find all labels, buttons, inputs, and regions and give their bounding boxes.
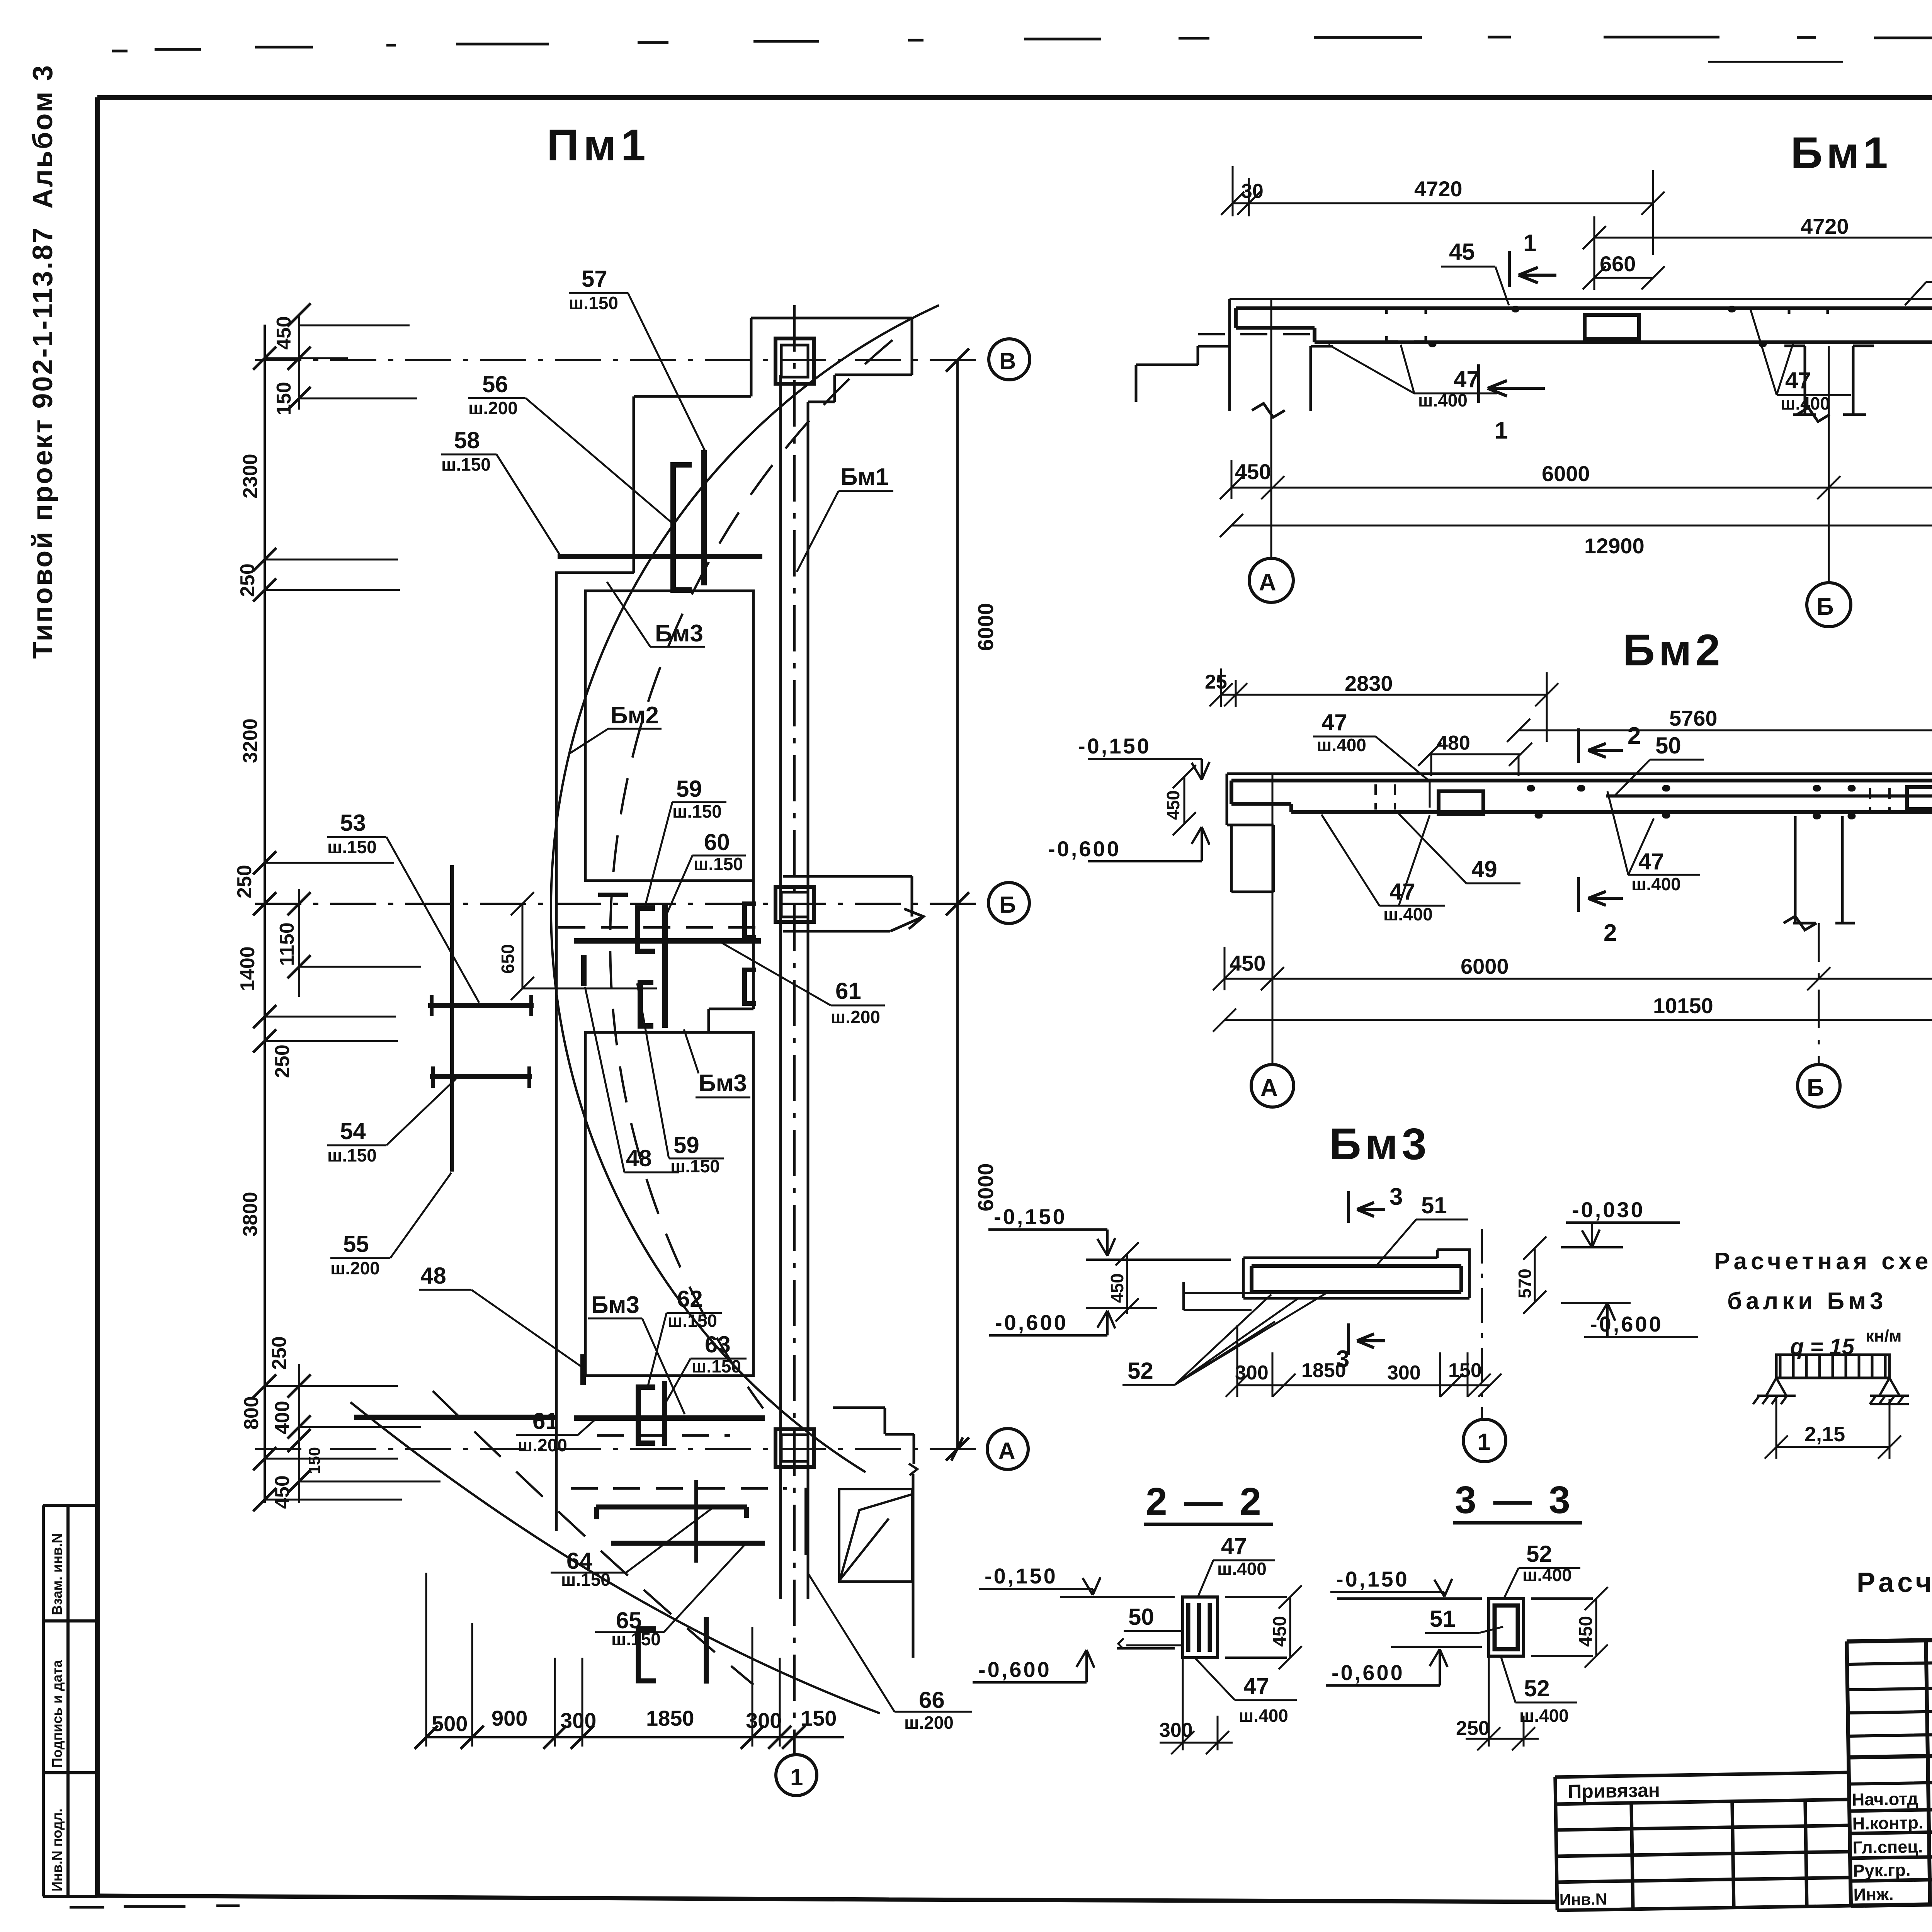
leader label 53 ш.150	[327, 810, 377, 857]
svg-text:450: 450	[1235, 459, 1271, 484]
svg-text:30: 30	[1241, 180, 1264, 202]
staff names column	[1931, 1787, 1932, 1903]
rebar 66 vertical bar in band	[804, 1488, 808, 1555]
column square at В	[776, 338, 814, 384]
svg-text:51: 51	[1430, 1606, 1456, 1632]
rebar bracket (А group upper)	[638, 1387, 655, 1443]
Бм2 mid rebar line 50	[1606, 794, 1932, 798]
Бм2 dim 450 vertical left	[1173, 765, 1196, 835]
leader label 62 ш.150	[668, 1286, 717, 1331]
svg-text:2,15: 2,15	[1804, 1423, 1845, 1446]
svg-text:Расчетная схема: Расчетная схема	[1714, 1248, 1932, 1275]
svg-text:А: А	[1259, 569, 1276, 596]
Бм3 left tail thin line	[1184, 1282, 1252, 1310]
svg-text:1: 1	[790, 1764, 803, 1790]
svg-text:650: 650	[498, 944, 518, 974]
plate top-left edge	[555, 396, 751, 573]
svg-text:300: 300	[1159, 1719, 1193, 1742]
band top extension outline	[751, 318, 912, 402]
svg-text:ш.400: ш.400	[1383, 904, 1433, 924]
svg-text:57: 57	[582, 266, 607, 292]
svg-text:В: В	[999, 348, 1016, 374]
section 2-2 column box	[1183, 1597, 1218, 1658]
lower opening panel	[585, 1032, 753, 1376]
svg-text:300: 300	[746, 1708, 782, 1733]
svg-text:54: 54	[340, 1118, 366, 1144]
svg-text:10150: 10150	[1653, 993, 1713, 1018]
Бм3 dim texts	[1235, 1359, 1482, 1384]
svg-text:61: 61	[835, 978, 861, 1004]
bottom dashed curve	[433, 1391, 753, 1685]
chain tick marks	[253, 303, 311, 1511]
svg-text:ш.150: ш.150	[569, 293, 618, 313]
section mark 3 lower	[1349, 1323, 1385, 1355]
svg-text:4720: 4720	[1414, 177, 1463, 201]
svg-text:3200: 3200	[239, 718, 262, 763]
Бм2 lower dim line 1 (450+6000+3700)	[1213, 947, 1932, 990]
label 47 ш.400 (Бм2 mid)	[1631, 849, 1681, 894]
svg-text:ш.150: ш.150	[672, 801, 722, 821]
big solid arc (tank wall)	[551, 305, 939, 1472]
svg-text:5760: 5760	[1669, 706, 1718, 730]
bottom-right step outline	[833, 1408, 914, 1658]
svg-text:Пм1: Пм1	[547, 121, 650, 170]
svg-text:Типовой проект 902-1-113.87: Типовой проект 902-1-113.87	[27, 226, 58, 659]
svg-text:450: 450	[1270, 1616, 1290, 1647]
svg-text:ш.400: ш.400	[1217, 1559, 1267, 1579]
svg-text:ш.150: ш.150	[327, 837, 377, 857]
svg-text:300: 300	[560, 1708, 596, 1733]
Бм1 stirrup marks left	[1386, 308, 1426, 342]
svg-text:47: 47	[1454, 366, 1480, 392]
svg-text:ш.200: ш.200	[518, 1435, 567, 1455]
svg-text:Инв.N: Инв.N	[1559, 1890, 1607, 1909]
svg-text:Бм2: Бм2	[1623, 626, 1724, 675]
title block bottom line	[1851, 1892, 1932, 1906]
title block outer top line	[1847, 1628, 1932, 1641]
svg-text:450: 450	[271, 1475, 294, 1509]
leader label 63 ш.150	[692, 1332, 741, 1376]
scheme Бм3 right support	[1870, 1378, 1909, 1404]
svg-text:-0,600: -0,600	[978, 1657, 1051, 1682]
column square at А	[776, 1429, 814, 1467]
Бм2 lower dim line 2 (10150)	[1213, 1009, 1932, 1032]
Бм2 axis Б extension and circle	[1818, 923, 1820, 1064]
leader label 55 ш.200	[330, 1231, 380, 1278]
label 47 ш.400 (2-2 bottom)	[1239, 1673, 1288, 1726]
section mark 2 lower	[1578, 877, 1623, 912]
svg-text:1850: 1850	[646, 1706, 694, 1730]
big dashed arc (hidden wall face)	[610, 340, 893, 1408]
svg-text:52: 52	[1526, 1541, 1552, 1567]
svg-text:56: 56	[482, 371, 508, 397]
svg-text:Бм3: Бм3	[655, 620, 703, 647]
svg-text:800: 800	[240, 1396, 263, 1430]
label 47 ш.400 (2-2 top)	[1217, 1533, 1267, 1579]
top torn dashed edge line	[112, 37, 1932, 62]
Бм2 top dim line (25+2830)	[1209, 668, 1558, 742]
svg-text:-0,600: -0,600	[1332, 1660, 1405, 1685]
svg-text:1: 1	[1478, 1429, 1490, 1455]
svg-text:150: 150	[305, 1447, 323, 1474]
svg-text:50: 50	[1655, 733, 1681, 759]
svg-text:-0,600: -0,600	[1048, 837, 1121, 861]
section mark 1 upper	[1509, 251, 1556, 287]
Бм3 outer outline	[1243, 1250, 1469, 1298]
rebar 48 lower small bar on panel edge	[580, 1354, 586, 1385]
svg-text:60: 60	[704, 829, 730, 855]
svg-text:-0,030: -0,030	[1572, 1197, 1645, 1222]
axis А dash-dot line	[255, 1448, 986, 1450]
leader label 59 ш.150 upper	[672, 776, 722, 821]
svg-text:52: 52	[1128, 1358, 1153, 1384]
Бм1 top bar thick line with left hook	[1236, 308, 1932, 342]
svg-text:ш.200: ш.200	[831, 1007, 880, 1027]
svg-text:Инж.: Инж.	[1853, 1884, 1894, 1905]
svg-text:2: 2	[1604, 920, 1617, 946]
chain extension lines	[265, 325, 440, 1500]
svg-text:Гл.спец.: Гл.спец.	[1852, 1837, 1923, 1857]
svg-text:3: 3	[1389, 1184, 1403, 1210]
svg-text:150: 150	[801, 1706, 837, 1730]
svg-text:66: 66	[919, 1687, 945, 1713]
leader label 66 ш.200	[904, 1687, 954, 1733]
Бм1 top dim line A (30+4720)	[1221, 166, 1665, 255]
rebar small bar left of Б	[598, 893, 628, 897]
Бм3 axis 1 dash-dot vertical	[1481, 1229, 1483, 1418]
svg-text:300: 300	[1235, 1362, 1269, 1384]
svg-text:150: 150	[1448, 1359, 1482, 1382]
svg-text:58: 58	[454, 427, 480, 453]
svg-text:ш.150: ш.150	[694, 854, 743, 874]
rebar 53/54 end brackets	[432, 995, 531, 1088]
svg-text:Нач.отд: Нач.отд	[1852, 1789, 1918, 1810]
svg-text:3800: 3800	[239, 1192, 262, 1236]
Бм1 bottom bar thick line with right step	[1315, 308, 1932, 342]
rebar 57 bar vertical (В group)	[701, 450, 707, 585]
Бм1 left wall dashed hidden edge	[1198, 333, 1313, 335]
svg-text:Подпись и дата: Подпись и дата	[49, 1660, 65, 1768]
svg-text:ш.400: ш.400	[1317, 735, 1366, 755]
svg-text:Бм3: Бм3	[591, 1292, 639, 1318]
rebar vertical bar at 64/65 group	[694, 1480, 698, 1563]
svg-text:61: 61	[532, 1408, 558, 1434]
column square at Б	[776, 887, 814, 922]
svg-text:450: 450	[273, 316, 295, 350]
svg-text:900: 900	[492, 1706, 527, 1730]
leader label 58 ш.150	[441, 427, 491, 474]
axis circle 1 (bottom)	[776, 1755, 817, 1796]
svg-text:Расчетная нагрузка на Пм1-q=30: Расчетная нагрузка на Пм1-q=30кн/м²	[1857, 1567, 1932, 1598]
dim 300 (2-2)	[1160, 1658, 1233, 1754]
axis 1 vertical dash-dot line	[793, 305, 796, 1753]
svg-text:6000: 6000	[973, 603, 998, 651]
svg-text:450: 450	[1576, 1616, 1596, 1647]
svg-text:2 — 2: 2 — 2	[1146, 1480, 1264, 1523]
axis circle В	[989, 339, 1030, 380]
label 47 ш.400 (Бм2 top left)	[1317, 709, 1366, 755]
svg-text:6000: 6000	[1461, 954, 1509, 978]
Бм3 top bar thick	[1252, 1266, 1461, 1292]
svg-text:Б: Б	[999, 892, 1016, 918]
svg-text:Бм3: Бм3	[699, 1070, 747, 1097]
axis circle Б	[988, 883, 1029, 923]
svg-text:ш.150: ш.150	[441, 454, 491, 474]
upper opening panel	[585, 591, 753, 881]
svg-text:55: 55	[343, 1231, 369, 1257]
svg-text:ш.400: ш.400	[1781, 393, 1830, 413]
plate left wall	[555, 573, 558, 1531]
bottom dim texts	[432, 1706, 837, 1736]
Бм3 dim 570 vertical right	[1523, 1236, 1546, 1314]
Бм2 mid support	[1784, 816, 1855, 930]
svg-text:50: 50	[1128, 1604, 1154, 1630]
svg-text:ш.400: ш.400	[1519, 1706, 1569, 1726]
svg-text:48: 48	[626, 1145, 652, 1171]
leader label 57 ш.150	[569, 266, 618, 313]
svg-text:47: 47	[1221, 1533, 1247, 1559]
svg-text:47: 47	[1785, 367, 1811, 393]
svg-text:47: 47	[1389, 879, 1415, 905]
left margin stamp block	[43, 1505, 97, 1896]
svg-text:-0,150: -0,150	[994, 1204, 1067, 1229]
svg-text:2830: 2830	[1345, 671, 1393, 696]
leader label 64 ш.150	[561, 1548, 611, 1590]
rebar 59 bracket upper right (Б group)	[745, 904, 756, 937]
Бм2 rebar dots	[1530, 788, 1852, 816]
svg-text:1150: 1150	[276, 922, 298, 966]
svg-text:Бм1: Бм1	[1791, 128, 1892, 178]
scheme Бм3 hatched beam bar	[1776, 1355, 1889, 1378]
label 52 ш.400 (3-3 bottom)	[1519, 1675, 1569, 1726]
rebar 65 thick bar	[611, 1541, 765, 1546]
svg-text:450: 450	[1230, 951, 1265, 975]
svg-text:500: 500	[432, 1711, 468, 1736]
svg-text:Рук.гр.: Рук.гр.	[1853, 1860, 1911, 1881]
hidden dashed line above А axis	[597, 1434, 730, 1437]
svg-text:59: 59	[673, 1132, 699, 1158]
rebar 53 thick bar (left group)	[428, 1003, 534, 1008]
section mark 3 upper	[1349, 1191, 1385, 1223]
Бм2 top bar thick line with left hook	[1231, 781, 1932, 812]
bottom chain ticks	[415, 1726, 805, 1749]
svg-text:1: 1	[1523, 230, 1536, 257]
step notch at Б axis with arrow	[783, 909, 923, 931]
rebar bracket lower (Б group)	[640, 983, 653, 1026]
leader label 61 ш.200 lower	[518, 1408, 567, 1455]
bottom dimension chain	[426, 1736, 844, 1738]
rebar 54 thick bar (left group)	[430, 1074, 532, 1079]
Бм1 left support pedestal	[1136, 299, 1333, 417]
dim 450 (3-3)	[1585, 1587, 1608, 1668]
svg-text:250: 250	[1456, 1717, 1490, 1740]
svg-text:47: 47	[1243, 1673, 1269, 1699]
Бм2 bottom bar thick line	[1291, 781, 1932, 812]
svg-text:52: 52	[1524, 1675, 1550, 1701]
Бм2 left support pedestal	[1231, 825, 1274, 892]
rebar 56 bracket (В group)	[673, 465, 692, 590]
section 3-3 bar loop	[1495, 1605, 1518, 1649]
section 3-3 column box	[1489, 1599, 1524, 1656]
650 dim line	[511, 892, 657, 1000]
svg-text:250: 250	[236, 563, 259, 597]
svg-text:59: 59	[676, 776, 702, 802]
axis circle А	[987, 1429, 1028, 1469]
svg-text:Взам. инв.N: Взам. инв.N	[49, 1533, 65, 1615]
svg-text:балки Бм3: балки Бм3	[1727, 1288, 1887, 1315]
svg-text:А: А	[1260, 1075, 1278, 1101]
Бм2 dim 480 left	[1418, 743, 1532, 776]
Бм2 splice box right	[1907, 787, 1932, 809]
leader label 54 ш.150	[327, 1118, 377, 1165]
hidden dashed line below Б axis	[558, 926, 759, 929]
svg-text:Бм1: Бм1	[840, 464, 889, 490]
svg-text:Н.контр.: Н.контр.	[1852, 1813, 1923, 1833]
svg-text:ш.200: ш.200	[468, 398, 518, 418]
label 47 ш.400 (Бм1 left)	[1418, 366, 1480, 410]
rebar 61 thick bar upper (Б group)	[574, 938, 761, 944]
svg-text:3 — 3: 3 — 3	[1455, 1478, 1573, 1522]
leader label 65 ш.150	[611, 1607, 661, 1649]
title block left grid columns	[1847, 1637, 1932, 1906]
rebar 61 thick bar lower left part	[354, 1415, 556, 1420]
Бм1 axis А extension and circle	[1270, 299, 1272, 558]
scheme Бм3 dim 2,15	[1765, 1399, 1901, 1459]
svg-text:480: 480	[1437, 732, 1470, 754]
axis А tick	[951, 1437, 963, 1461]
svg-text:Бм3: Бм3	[1329, 1119, 1430, 1169]
svg-text:-0,150: -0,150	[1078, 734, 1151, 758]
Бм1 top dim line C (660 left)	[1583, 266, 1665, 289]
label 47 ш.400 (Бм2 bottom left)	[1383, 879, 1433, 924]
svg-text:ш.400: ш.400	[1631, 874, 1681, 894]
svg-text:6000: 6000	[1542, 461, 1590, 486]
svg-text:49: 49	[1471, 856, 1497, 882]
rebar bracket below А	[638, 1629, 656, 1681]
svg-text:48: 48	[420, 1263, 446, 1289]
scheme Бм3 left support	[1753, 1378, 1909, 1404]
svg-text:150: 150	[273, 382, 295, 415]
svg-text:12900: 12900	[1584, 534, 1645, 558]
svg-text:300: 300	[1387, 1362, 1421, 1384]
beam Бм1 plan band edges	[781, 375, 808, 1599]
svg-text:45: 45	[1449, 239, 1475, 265]
Привязан table	[1555, 1772, 1851, 1910]
dim 250 (3-3)	[1466, 1656, 1539, 1750]
Бм2 left step outline	[1227, 774, 1274, 825]
svg-text:ш.200: ш.200	[330, 1258, 380, 1278]
left dimension chain line 1	[264, 325, 266, 1503]
svg-text:250: 250	[233, 865, 256, 898]
opening edge between panels at Б	[709, 881, 753, 1032]
section 2-2 bars	[1188, 1603, 1210, 1652]
section mark 1 lower	[1479, 364, 1545, 403]
label 52 ш.400 (3-3 top)	[1522, 1541, 1572, 1585]
Бм1 rebar dots	[1432, 309, 1764, 344]
svg-text:53: 53	[340, 810, 366, 836]
section mark 2 upper	[1578, 728, 1623, 763]
Бм1 axis Б extension and circle	[1828, 346, 1830, 583]
svg-text:250: 250	[271, 1044, 294, 1078]
svg-text:ш.200: ш.200	[904, 1713, 954, 1733]
Бм3 bottom bar thick	[1252, 1266, 1461, 1292]
svg-text:Б: Б	[1807, 1075, 1824, 1101]
Бм2 top dim line (5760)	[1507, 707, 1932, 742]
rebar 56 bracket upper (Б group)	[638, 908, 655, 951]
rotated dim text 450 top	[233, 316, 998, 1509]
Бм2 splice box left	[1439, 791, 1483, 814]
leader label 61 ш.200 upper	[831, 978, 880, 1027]
leader label 59 ш.150 lower	[670, 1132, 720, 1176]
title block left grid thin rows	[1847, 1660, 1932, 1784]
section 2-2 level lines	[1060, 1597, 1287, 1658]
rebar 64 thick bar	[596, 1507, 747, 1519]
svg-text:660: 660	[1600, 252, 1636, 276]
svg-text:570: 570	[1515, 1269, 1535, 1298]
bottom chain extension verticals	[426, 1573, 780, 1747]
rebar vertical bar (А group upper)	[662, 1381, 667, 1446]
svg-text:-0,600: -0,600	[995, 1310, 1068, 1335]
svg-text:кн/м: кн/м	[1866, 1327, 1901, 1345]
Бм1 slab top thin line	[1230, 298, 1932, 300]
label 47 ш.400 (Бм1 mid)	[1781, 367, 1830, 413]
svg-text:63: 63	[705, 1332, 731, 1357]
section 3-3 level lines	[1337, 1599, 1593, 1656]
svg-text:51: 51	[1421, 1192, 1447, 1218]
leader label 60 ш.150	[694, 829, 743, 874]
Бм3 circle 1	[1463, 1419, 1506, 1462]
svg-text:2: 2	[1628, 723, 1641, 749]
svg-text:-0,150: -0,150	[985, 1564, 1058, 1588]
Бм2 stirrup dashed marks	[1376, 784, 1932, 811]
svg-text:1850: 1850	[1301, 1359, 1346, 1382]
svg-text:ш.150: ш.150	[327, 1145, 377, 1165]
Бм3 bottom dim chain	[1226, 1325, 1502, 1397]
svg-text:250: 250	[268, 1336, 291, 1370]
hidden dashed line below А axis	[571, 1487, 787, 1490]
svg-text:ш.400: ш.400	[1239, 1706, 1288, 1726]
svg-text:Б: Б	[1816, 594, 1834, 620]
rebar 58 thick bar (В group)	[558, 554, 762, 559]
bottom solid curve	[350, 1402, 880, 1713]
svg-text:4720: 4720	[1801, 214, 1849, 238]
Бм2 axis А extension and circle	[1272, 774, 1274, 1064]
rebar 60 bar vertical (Б group)	[662, 904, 668, 1028]
rebar 59 bracket lower right (Б group)	[745, 970, 756, 1003]
svg-text:47: 47	[1638, 849, 1664, 874]
svg-text:450: 450	[1163, 790, 1183, 820]
Бм1 splice box 1	[1585, 315, 1639, 339]
Бм2 slab top thin line	[1227, 772, 1932, 775]
Бм1 lower dim line 1 (450+6000)	[1220, 460, 1932, 499]
Бм3 dim 450 vertical left	[1116, 1242, 1139, 1321]
svg-text:Привязан: Привязан	[1568, 1779, 1660, 1803]
svg-text:62: 62	[677, 1286, 703, 1312]
bottom ramp box with diagonals	[839, 1489, 912, 1582]
leader label 56 ш.200	[468, 371, 518, 418]
rebar 48 upper small bar on panel edge	[581, 955, 587, 986]
right vertical dim line 6000 span	[956, 360, 959, 1449]
svg-text:А: А	[998, 1438, 1015, 1464]
rebar 55 long vertical bar	[450, 865, 454, 1172]
svg-text:-0,150: -0,150	[1336, 1567, 1409, 1591]
axis Б dash-dot line	[255, 903, 987, 905]
svg-text:450: 450	[1107, 1273, 1127, 1303]
dim 450 (2-2)	[1279, 1585, 1302, 1669]
svg-text:1400: 1400	[236, 946, 259, 991]
axis В dash-dot line	[255, 359, 988, 361]
svg-text:400: 400	[271, 1401, 294, 1434]
